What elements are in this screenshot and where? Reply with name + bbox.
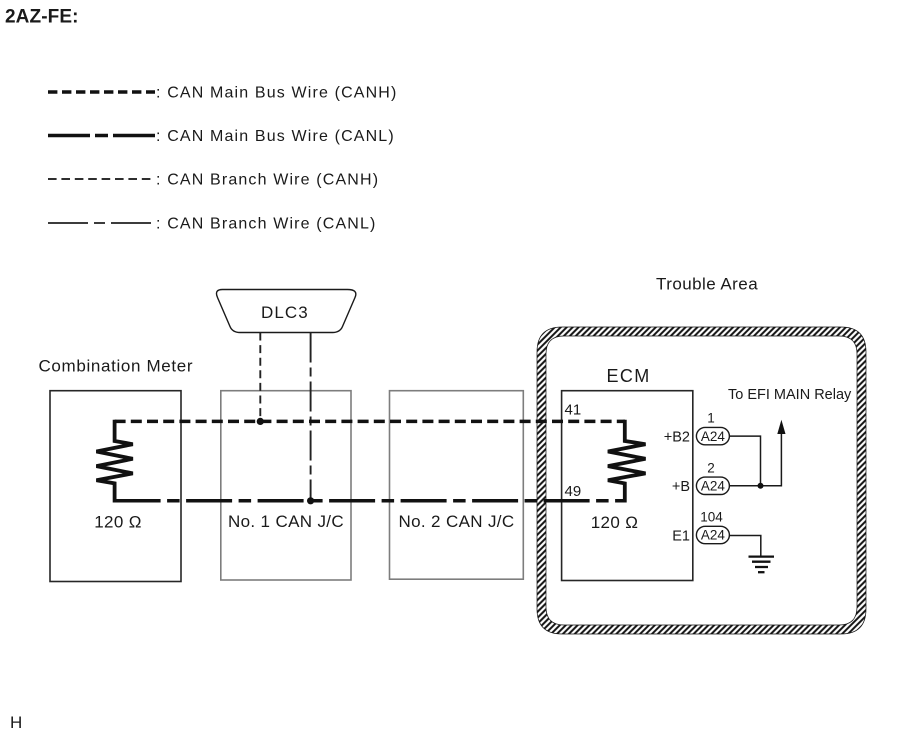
- svg-text:1: 1: [707, 411, 715, 426]
- DLC3 connector shape: [216, 290, 355, 333]
- legend line CAN Main Bus Wire (CANL): [48, 134, 155, 138]
- svg-text:120 Ω: 120 Ω: [94, 513, 142, 532]
- svg-text:ECM: ECM: [607, 366, 651, 386]
- svg-text:Trouble Area: Trouble Area: [656, 275, 758, 294]
- connector A24 +B: [696, 477, 729, 494]
- junction dot CANH/DLC3: [257, 418, 264, 425]
- svg-text:E1: E1: [672, 529, 690, 545]
- svg-text:2: 2: [707, 461, 715, 476]
- box No. 1 CAN J/C: [221, 391, 351, 580]
- connector A24 +B2: [696, 427, 729, 444]
- resistor 120ohm combination meter: [96, 420, 132, 503]
- svg-text:: CAN Main Bus Wire (CANL): : CAN Main Bus Wire (CANL): [156, 128, 395, 145]
- legend line CAN Main Bus Wire (CANH): [48, 90, 155, 94]
- svg-text:A24: A24: [701, 429, 726, 444]
- legend line CAN Branch Wire (CANL): [48, 222, 155, 224]
- junction dot +B: [758, 483, 764, 489]
- svg-text:104: 104: [700, 510, 723, 525]
- svg-text:DLC3: DLC3: [261, 303, 309, 322]
- resistor 120ohm ECM: [608, 420, 646, 503]
- connector A24 E1: [696, 526, 729, 543]
- svg-text:+B2: +B2: [664, 430, 690, 446]
- trouble area hatched border: [537, 327, 866, 634]
- CANL main bus wire: [115, 499, 625, 503]
- svg-text:120 Ω: 120 Ω: [591, 513, 639, 532]
- ground symbol: [749, 555, 775, 557]
- svg-text:Combination Meter: Combination Meter: [39, 357, 194, 376]
- box ECM: [562, 391, 693, 581]
- arrowhead to EFI MAIN relay: [777, 420, 785, 434]
- CANH main bus wire: [115, 420, 625, 424]
- svg-text:: CAN Branch Wire (CANH): : CAN Branch Wire (CANH): [156, 172, 379, 189]
- junction dot CANL/DLC3: [307, 497, 314, 504]
- wire +B to relay riser: [729, 431, 781, 486]
- box Combination Meter: [50, 391, 181, 582]
- svg-text:H: H: [10, 713, 22, 732]
- svg-text:A24: A24: [701, 479, 726, 494]
- legend line CAN Branch Wire (CANH): [48, 178, 155, 180]
- branch wire CANL from DLC3: [310, 333, 312, 501]
- svg-text:A24: A24: [701, 528, 726, 543]
- branch wire CANH from DLC3: [259, 333, 261, 422]
- svg-text:No. 2 CAN J/C: No. 2 CAN J/C: [398, 512, 514, 531]
- svg-text:2AZ-FE:: 2AZ-FE:: [5, 7, 79, 28]
- svg-text:No. 1 CAN J/C: No. 1 CAN J/C: [228, 512, 344, 531]
- svg-text:: CAN Branch Wire (CANL): : CAN Branch Wire (CANL): [156, 216, 377, 233]
- svg-text:To EFI MAIN Relay: To EFI MAIN Relay: [728, 387, 852, 403]
- box No. 2 CAN J/C: [390, 391, 524, 580]
- wire +B2 to junction: [729, 436, 760, 486]
- svg-text:+B: +B: [672, 479, 690, 495]
- svg-text:: CAN Main Bus Wire (CANH): : CAN Main Bus Wire (CANH): [156, 85, 397, 102]
- wire E1 to ground: [729, 536, 760, 557]
- svg-text:49: 49: [565, 483, 582, 500]
- svg-text:41: 41: [565, 401, 582, 418]
